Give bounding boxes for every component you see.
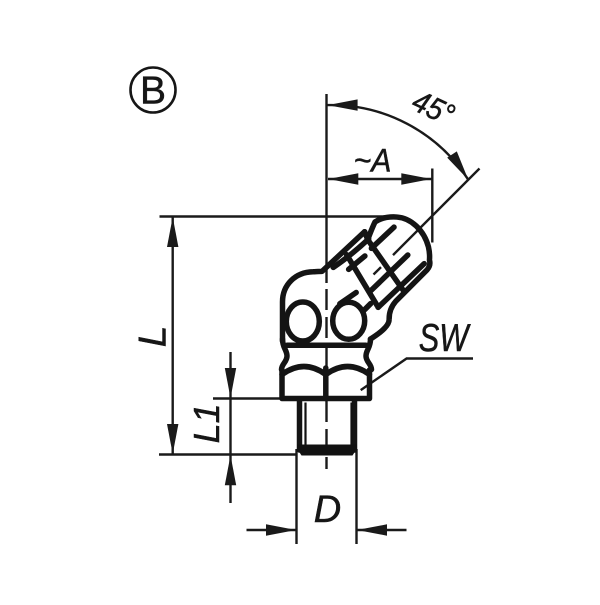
svg-text:SW: SW <box>419 317 471 360</box>
svg-text:D: D <box>314 489 341 531</box>
svg-text:L1: L1 <box>186 403 227 443</box>
svg-text:~A: ~A <box>354 143 392 179</box>
svg-text:L: L <box>132 326 175 348</box>
svg-text:B: B <box>140 70 166 113</box>
